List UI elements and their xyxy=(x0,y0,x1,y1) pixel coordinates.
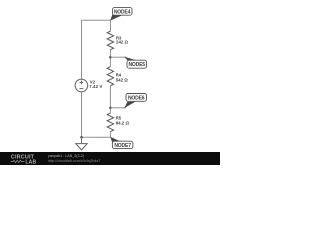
wire between R4 and R5 xyxy=(109,86,111,113)
svg-text:NODE5: NODE5 xyxy=(128,62,145,68)
wire left lower vertical xyxy=(81,92,83,138)
node NODE4 flag xyxy=(110,14,122,21)
svg-text:yanpab1 : LAB_2(3.2): yanpab1 : LAB_2(3.2) xyxy=(48,154,84,158)
junction node between R4 and R5 xyxy=(109,107,112,110)
svg-text:NODE4: NODE4 xyxy=(114,9,131,15)
ground xyxy=(81,137,83,143)
wire right stub below top corner xyxy=(109,20,111,31)
svg-text:7.42 V: 7.42 V xyxy=(89,84,102,89)
svg-text:242 Ω: 242 Ω xyxy=(116,39,129,44)
watermark bar xyxy=(0,152,220,165)
junction node bottom left xyxy=(80,136,83,139)
wire bottom horizontal xyxy=(82,136,111,138)
svg-text:http://circuitlab.com/c/b4nj3h: http://circuitlab.com/c/b4nj3hkz7 xyxy=(48,159,100,163)
logo zigzag xyxy=(11,160,25,162)
node NODE7 flag xyxy=(110,137,122,144)
junction node between R3 and R4 xyxy=(109,56,112,59)
resistor R4 xyxy=(107,67,113,86)
svg-text:84.2 Ω: 84.2 Ω xyxy=(116,121,130,126)
voltage source V2 xyxy=(75,79,88,92)
svg-text:LAB: LAB xyxy=(25,159,36,165)
svg-text:NODE6: NODE6 xyxy=(128,95,145,101)
svg-text:NODE7: NODE7 xyxy=(114,143,131,149)
wire top horizontal xyxy=(82,19,111,21)
node NODE5 flag xyxy=(110,56,126,58)
svg-text:542 Ω: 542 Ω xyxy=(116,78,129,83)
resistor R3 xyxy=(107,31,113,50)
wire left upper vertical xyxy=(81,20,83,79)
node NODE6 flag xyxy=(110,107,126,109)
wire below R5 xyxy=(109,131,111,137)
resistor R5 xyxy=(107,113,113,132)
wire between R3 and R4 xyxy=(109,49,111,66)
